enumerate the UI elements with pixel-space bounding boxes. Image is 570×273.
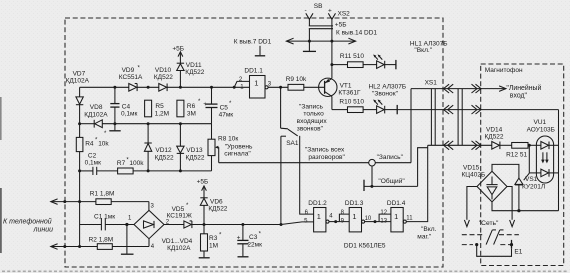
svg-text:VD12: VD12 <box>155 147 172 154</box>
svg-text:10: 10 <box>365 216 372 222</box>
node <box>147 169 150 172</box>
resistor R2 <box>97 239 149 250</box>
svg-text:+5Б: +5Б <box>335 21 347 28</box>
zener VD5 <box>184 221 192 228</box>
svg-text:КД522: КД522 <box>485 133 504 140</box>
capacitor C3 polarized <box>237 225 248 257</box>
wire DD1.4 output <box>406 145 427 221</box>
svg-text:КД522: КД522 <box>208 205 227 212</box>
diode VD7 <box>76 87 83 123</box>
node <box>179 86 182 89</box>
resistor R6 <box>177 100 184 117</box>
potentiometer R8 <box>208 124 219 171</box>
svg-text:DD1.2: DD1.2 <box>308 200 327 207</box>
node <box>334 220 337 223</box>
wire bridge left to mains <box>467 187 477 220</box>
bridge rectifier VD1-VD4 <box>134 210 164 238</box>
switch SA1 <box>281 87 298 136</box>
svg-text:"Запись": "Запись" <box>377 154 404 161</box>
svg-text:0,1мк: 0,1мк <box>85 160 102 167</box>
svg-text:SA1: SA1 <box>286 140 299 147</box>
scan edge mark left <box>0 97 2 140</box>
node <box>370 185 373 188</box>
node <box>203 223 206 226</box>
svg-text:R9 10k: R9 10k <box>286 76 307 83</box>
svg-text:VD1...VD4: VD1...VD4 <box>162 238 193 245</box>
tape recorder dashed border (Магнитофон) <box>481 64 564 266</box>
svg-text:разговоров": разговоров" <box>308 154 345 161</box>
svg-text:3М: 3М <box>187 110 196 117</box>
switch Сеть contacts <box>486 230 503 245</box>
resistor R9 <box>288 84 325 90</box>
svg-text:10k: 10k <box>98 140 109 147</box>
svg-text:КД522: КД522 <box>185 69 204 76</box>
bridge rectifier VD15 <box>477 171 507 202</box>
svg-text:звонков": звонков" <box>297 126 324 133</box>
svg-text:КД102А: КД102А <box>84 111 108 118</box>
svg-text:100k: 100k <box>129 160 144 167</box>
svg-text:1М: 1М <box>209 242 218 249</box>
svg-text:КД522: КД522 <box>154 74 173 81</box>
arrow down mains A <box>464 220 469 227</box>
node <box>63 245 66 248</box>
svg-text:"Вкл.": "Вкл." <box>414 47 432 54</box>
terminal pin HL1 <box>395 60 397 69</box>
capacitor C5 polarized <box>206 87 218 123</box>
connector XS2 fork contact A <box>306 13 313 19</box>
svg-text:13: 13 <box>380 219 387 225</box>
svg-text:1,2М: 1,2М <box>155 110 169 117</box>
transistor VT1 <box>319 65 337 110</box>
wire <box>331 29 333 65</box>
diode VD10 <box>159 84 167 92</box>
svg-text:линии: линии <box>33 226 54 233</box>
LED HL2 <box>373 99 397 113</box>
logic gate DD1.2 <box>314 208 329 232</box>
wire input jog <box>234 81 249 87</box>
node <box>147 122 150 125</box>
svg-text:R11 510: R11 510 <box>340 53 364 60</box>
wire <box>329 221 339 223</box>
svg-text:VD8: VD8 <box>90 104 103 111</box>
wire bottom rail <box>80 123 95 125</box>
connector XS2 fork contact B <box>328 13 335 19</box>
wire <box>364 185 418 187</box>
ground for pin7 <box>259 46 261 56</box>
svg-text:R6: R6 <box>187 103 196 110</box>
LED HL1 <box>373 54 396 68</box>
resistor R1 <box>96 199 149 211</box>
svg-text:"Звонок": "Звонок" <box>372 90 399 97</box>
logic gate DD1.3 <box>349 208 364 232</box>
svg-text:R4: R4 <box>85 140 94 147</box>
svg-text:DD1.4: DD1.4 <box>387 200 406 207</box>
arrow down mains B <box>510 220 515 227</box>
svg-text:R7: R7 <box>117 160 126 167</box>
node <box>113 122 116 125</box>
wire output <box>268 86 288 88</box>
svg-text:VD9: VD9 <box>122 67 135 74</box>
node <box>210 86 213 89</box>
node <box>517 209 520 212</box>
+5B arrow up <box>202 186 207 191</box>
node <box>330 63 333 66</box>
svg-text:XS2: XS2 <box>338 11 351 18</box>
svg-text:1: 1 <box>317 212 321 221</box>
node <box>78 200 81 203</box>
svg-text:VS1: VS1 <box>525 176 538 183</box>
wire <box>365 221 379 223</box>
svg-text:+5Б: +5Б <box>197 178 209 185</box>
svg-text:входящих: входящих <box>297 118 328 125</box>
wire recording line <box>219 162 369 164</box>
node <box>78 169 81 172</box>
svg-text:VD7: VD7 <box>73 70 86 77</box>
wire <box>308 29 310 41</box>
wire <box>418 148 428 187</box>
svg-text:К телефонной: К телефонной <box>3 218 52 226</box>
node <box>233 86 236 89</box>
svg-text:"Вкл.: "Вкл. <box>421 226 437 233</box>
svg-text:КС551А: КС551А <box>119 74 143 81</box>
diode VD6 <box>200 187 207 224</box>
wire <box>331 19 333 28</box>
wire bridge top to VS1 <box>492 164 519 178</box>
wire phone line A <box>51 201 96 203</box>
svg-text:DD1.3: DD1.3 <box>345 200 364 207</box>
svg-text:R8 10к: R8 10к <box>218 135 238 142</box>
svg-text:R10 510: R10 510 <box>339 99 364 106</box>
capacitor C4 <box>110 87 119 123</box>
wire row2 <box>397 109 558 111</box>
wire <box>371 166 373 186</box>
svg-text:КЦ402Б: КЦ402Б <box>462 171 486 178</box>
wire cable verticals <box>430 89 432 146</box>
diode VD11 <box>177 53 184 87</box>
arrow to line B <box>51 244 58 250</box>
wire bridge bottom rail <box>492 202 559 211</box>
+5B arrow up <box>178 52 183 57</box>
svg-text:Магнитофон: Магнитофон <box>485 67 523 74</box>
svg-text:"Запись: "Запись <box>299 103 324 110</box>
zener VD9 <box>129 84 137 92</box>
node <box>147 86 150 89</box>
wire E1 link <box>477 245 512 257</box>
node <box>528 144 531 147</box>
svg-text:XS1: XS1 <box>425 79 438 86</box>
wire input link DD1.4 <box>379 214 391 222</box>
node <box>78 122 81 125</box>
node <box>280 223 283 226</box>
diode VD8 <box>94 120 102 128</box>
switch Сеть dashed leads <box>462 235 519 245</box>
svg-text:R3: R3 <box>209 235 218 242</box>
svg-text:"Уровень: "Уровень <box>225 143 253 150</box>
svg-text:VD14: VD14 <box>486 126 503 133</box>
wire bridge right to mains <box>507 187 512 220</box>
scan bottom speckle band <box>2 270 568 272</box>
node <box>241 223 244 226</box>
optocoupler VU1 <box>536 136 553 183</box>
svg-text:VU1: VU1 <box>534 119 547 126</box>
svg-text:+: + <box>237 235 241 242</box>
wire <box>375 162 411 164</box>
svg-text:R12 51: R12 51 <box>506 152 527 159</box>
capacitor C1 <box>80 219 134 231</box>
jack contact Общий <box>363 180 365 191</box>
VU1 coupling arrows <box>541 152 549 163</box>
svg-text:КУ201Л: КУ201Л <box>522 184 545 191</box>
svg-text:VD13: VD13 <box>186 147 203 154</box>
resistor R4 <box>76 124 83 247</box>
wire <box>308 19 310 26</box>
wire top rail <box>80 86 129 88</box>
svg-text:VT1: VT1 <box>340 82 352 89</box>
resistor R11 <box>332 62 377 68</box>
node <box>308 40 311 43</box>
svg-text:+: + <box>203 101 207 108</box>
wire right return <box>558 110 560 211</box>
svg-text:C3: C3 <box>249 234 258 241</box>
svg-text:КТ361Г: КТ361Г <box>338 89 361 96</box>
svg-text:DD1 К561ЛЕ5: DD1 К561ЛЕ5 <box>344 243 386 250</box>
wire <box>280 136 282 224</box>
diode VD13 <box>177 124 184 171</box>
resistor R10 <box>332 107 377 113</box>
wire bridge output <box>164 224 184 226</box>
svg-text:0,1мк: 0,1мк <box>121 111 138 118</box>
logic gate DD1.1 <box>250 76 269 99</box>
wire phone line B <box>51 246 98 248</box>
arrow right to pin14 <box>348 38 355 44</box>
connector XS1 pins row2 <box>444 105 481 114</box>
node <box>279 86 282 89</box>
svg-text:только: только <box>303 111 324 118</box>
connector XS1 pins row3 <box>444 141 481 150</box>
svg-text:"Сеть": "Сеть" <box>479 220 499 227</box>
svg-text:VD10: VD10 <box>155 67 172 74</box>
wire input link DD1.3 <box>339 214 349 222</box>
wire <box>410 89 412 163</box>
node <box>374 220 377 223</box>
wire row1 line-out <box>411 88 506 90</box>
arrow to line input <box>499 86 506 92</box>
svg-text:1: 1 <box>254 78 258 87</box>
svg-text:К выв.14 DD1: К выв.14 DD1 <box>336 29 377 36</box>
resistor R3 <box>201 225 208 258</box>
svg-text:C1 1мк: C1 1мк <box>94 214 115 221</box>
svg-text:КД522: КД522 <box>186 155 205 162</box>
connector XS1 pins row1 <box>444 84 481 93</box>
terminal E1 <box>511 240 513 249</box>
svg-text:вход": вход" <box>510 93 528 100</box>
VU1 photothyristor <box>529 169 558 177</box>
svg-text:47мк: 47мк <box>219 112 234 119</box>
node <box>113 86 116 89</box>
svg-text:"Общий": "Общий" <box>378 177 405 185</box>
node <box>475 243 478 246</box>
svg-text:маг.": маг." <box>417 233 432 240</box>
arrow left on +5B rail <box>286 38 293 44</box>
svg-text:C4: C4 <box>122 104 131 111</box>
svg-text:22мк: 22мк <box>247 241 262 248</box>
resistor R12 <box>512 143 541 149</box>
svg-text:К выв.7 DD1: К выв.7 DD1 <box>234 38 272 45</box>
diode VD12 <box>144 124 151 171</box>
node <box>78 245 81 248</box>
diode VD14 <box>492 142 512 150</box>
svg-text:КД102А: КД102А <box>167 245 191 252</box>
svg-text:E1: E1 <box>514 248 522 255</box>
wire <box>192 224 281 226</box>
svg-text:"Запись всех: "Запись всех <box>305 146 345 153</box>
svg-text:КС191Ж: КС191Ж <box>167 213 192 220</box>
svg-text:КД102А: КД102А <box>66 77 90 84</box>
ground <box>308 41 310 51</box>
main device dashed border <box>65 18 443 267</box>
svg-text:1: 1 <box>352 212 356 221</box>
capacitor C2 <box>80 167 97 175</box>
VU1 LED <box>541 142 559 150</box>
node <box>510 243 513 246</box>
jack contact Запись <box>369 159 376 166</box>
svg-text:SB: SB <box>314 3 323 10</box>
svg-text:R1 1,8М: R1 1,8М <box>90 190 115 197</box>
node <box>63 200 66 203</box>
thyristor VS1 <box>515 173 529 211</box>
battery SB plate bottom <box>309 28 333 30</box>
svg-text:R5: R5 <box>155 103 164 110</box>
svg-text:КД522: КД522 <box>155 155 174 162</box>
svg-text:12: 12 <box>380 210 387 216</box>
terminal pin HL2 <box>396 105 398 114</box>
node <box>330 40 333 43</box>
arrow to line A <box>51 199 58 205</box>
wire row3 <box>428 144 492 146</box>
logic gate DD1.4 <box>391 208 406 232</box>
svg-text:1: 1 <box>394 212 398 221</box>
ground under node 1 <box>126 225 128 254</box>
wire +5B rail <box>286 40 355 42</box>
svg-text:-: - <box>305 7 307 14</box>
node <box>179 169 182 172</box>
wire <box>300 136 314 214</box>
resistor R7 <box>97 168 212 174</box>
wire <box>528 145 530 173</box>
svg-text:DD1.1: DD1.1 <box>244 67 263 74</box>
svg-text:R2 1,8М: R2 1,8М <box>89 236 114 243</box>
resistor R5 <box>145 100 152 117</box>
node 1 <box>125 223 128 226</box>
battery SB plate top <box>309 25 333 27</box>
ground under C4 <box>114 124 116 131</box>
svg-text:сигнала": сигнала" <box>224 151 251 158</box>
svg-text:VD6: VD6 <box>210 198 223 205</box>
svg-text:"Линейный: "Линейный <box>506 84 541 92</box>
svg-text:11: 11 <box>406 216 413 222</box>
svg-text:АОУ103Б: АОУ103Б <box>527 126 555 133</box>
svg-text:+5Б: +5Б <box>172 45 184 52</box>
node <box>179 122 182 125</box>
